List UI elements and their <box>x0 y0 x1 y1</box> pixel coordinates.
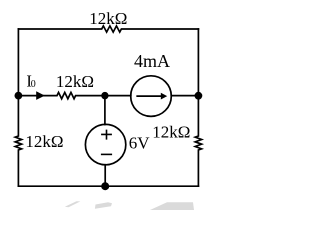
svg-text:12kΩ: 12kΩ <box>152 122 190 141</box>
svg-text:12kΩ: 12kΩ <box>56 72 94 91</box>
svg-text:12kΩ: 12kΩ <box>25 132 63 151</box>
svg-text:0: 0 <box>31 79 36 90</box>
svg-text:4mA: 4mA <box>134 51 170 71</box>
svg-text:6V: 6V <box>129 133 151 152</box>
svg-text:12kΩ: 12kΩ <box>89 9 127 28</box>
